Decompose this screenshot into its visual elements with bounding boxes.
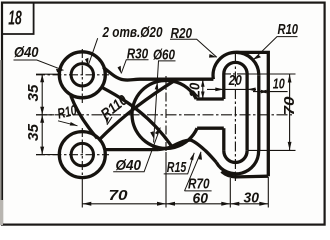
arrow leader R110 xyxy=(106,117,109,125)
svg-text:R30: R30 xyxy=(127,46,149,62)
svg-text:30: 30 xyxy=(244,190,260,206)
svg-text:70: 70 xyxy=(109,188,128,204)
arrow leader R30 xyxy=(118,66,122,74)
svg-text:R20: R20 xyxy=(171,26,193,42)
svg-text:35: 35 xyxy=(26,123,42,141)
arrow leader Ø40 top xyxy=(56,69,64,72)
leader R15 xyxy=(164,153,195,174)
ext line bottom dim at plate edge xyxy=(267,177,269,208)
slot left edge upper xyxy=(222,74,225,99)
hole bottom-left Ø20 xyxy=(71,143,93,165)
centerline: bottom-left boss vertical xyxy=(81,128,83,179)
centerline: main horizontal axis xyxy=(36,114,292,116)
svg-text:2 отв.Ø20: 2 отв.Ø20 xyxy=(102,25,163,41)
R15 crest and R70 arc to bracket xyxy=(158,140,216,162)
dim line 70 right xyxy=(289,74,291,150)
svg-text:20: 20 xyxy=(228,73,242,89)
R110 ascending arc xyxy=(100,79,177,139)
slot bottom semicircle R10 xyxy=(224,151,247,163)
svg-text:Ø60: Ø60 xyxy=(153,48,175,64)
ext line bottom boss left xyxy=(36,154,58,156)
leader R10 waist xyxy=(58,121,78,126)
dim line 70/60/30 bottom xyxy=(82,203,268,205)
svg-text:18: 18 xyxy=(8,7,22,29)
leader R70 xyxy=(185,152,212,191)
ext line bottom dim at keyhole center xyxy=(165,152,167,208)
dim line 35/35 xyxy=(41,74,43,154)
arrows 60/30 bottom xyxy=(221,202,239,206)
leader R10 top right xyxy=(254,37,298,60)
arrow leader R70 xyxy=(199,152,203,160)
ext line waist left xyxy=(36,114,54,116)
dim line neck 20 vertical xyxy=(202,79,204,99)
ext line 70 right bottom xyxy=(248,149,296,151)
arrow leader R10 xyxy=(70,122,78,126)
bottom tangent line xyxy=(104,148,158,151)
leader R110 xyxy=(107,117,112,125)
centerline: slot vertical axis xyxy=(234,54,236,181)
arrow leader R20 xyxy=(209,54,217,58)
scan smudge left edge xyxy=(0,60,2,225)
keyhole Ø60 C-circle xyxy=(132,80,197,148)
R20 arc under slot xyxy=(216,151,258,174)
arrow leader Ø40 bottom xyxy=(155,128,161,135)
arrows 70 right xyxy=(288,74,292,83)
centerline: keyhole vertical xyxy=(165,76,167,152)
centerline: top-left boss vertical xyxy=(81,49,83,103)
boss circle bottom-left Ø40 xyxy=(59,132,105,178)
arrows 70 bottom xyxy=(82,202,91,206)
svg-text:70: 70 xyxy=(282,97,298,116)
descending arc top boss to keyhole xyxy=(102,87,172,146)
arrow leader 2otv xyxy=(85,58,88,66)
svg-text:R15: R15 xyxy=(167,160,187,176)
svg-text:35: 35 xyxy=(26,84,42,102)
R20 outer arch of U-bracket xyxy=(213,52,259,79)
plate bottom edge xyxy=(222,172,269,177)
arrows 10 xyxy=(259,90,267,94)
U-bracket outer right vertical xyxy=(257,75,260,151)
leader Ø40 bottom xyxy=(113,128,160,172)
leader 2 holes Ø20 xyxy=(88,38,98,65)
dim line slot 20 xyxy=(207,88,256,90)
svg-text:20: 20 xyxy=(187,83,203,98)
arrows slot 20 (outside pointing in) xyxy=(215,88,224,92)
svg-text:R10: R10 xyxy=(278,22,299,38)
svg-text:Ø40: Ø40 xyxy=(14,45,39,61)
svg-text:Ø40: Ø40 xyxy=(116,158,142,174)
centerline: slot top cross xyxy=(223,73,249,75)
R30 fillet and top tangent line xyxy=(103,67,213,80)
boss circle top-left Ø40 xyxy=(59,52,105,98)
hole top-left Ø20 xyxy=(71,64,93,86)
plate outline top/right/bottom xyxy=(236,52,268,176)
ext line top boss left xyxy=(36,73,58,75)
leader R30 xyxy=(121,60,148,74)
arrow leader R15 xyxy=(190,153,194,161)
centerline: top-left boss horizontal xyxy=(36,74,109,76)
neck slot lower line xyxy=(197,127,224,130)
leader Ø40 top xyxy=(14,60,64,70)
ext line bottom dim at slot center xyxy=(229,178,231,208)
slot left edge lower xyxy=(222,128,225,151)
arrows neck 20 xyxy=(201,79,205,87)
arrows leader Ø60 xyxy=(155,82,159,90)
dim line 10 xyxy=(253,91,288,93)
leader R20 xyxy=(170,39,217,57)
centerline: bottom-left boss horizontal xyxy=(36,154,109,156)
underline Ø60 + leader xyxy=(154,61,176,143)
arrow leader R10 top right xyxy=(254,55,262,60)
svg-text:10: 10 xyxy=(273,77,285,93)
waist arc between left bosses (R10 fillet zone) xyxy=(71,96,97,139)
neck slot upper line xyxy=(196,97,224,100)
slot top semicircle R10 xyxy=(224,62,247,74)
card number box xyxy=(2,3,34,34)
svg-text:60: 60 xyxy=(193,191,209,207)
ext line bottom dim at boss xyxy=(81,179,83,208)
arrows 35/35 left xyxy=(40,74,44,82)
ext line 70 right top xyxy=(244,73,296,75)
slot right edge xyxy=(245,74,248,151)
